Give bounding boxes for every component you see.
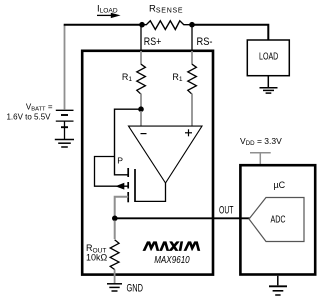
wire RS- pin [191,26,193,51]
wire RS- node to LOAD [192,25,268,40]
gate bar [134,169,136,202]
wire node A to transistor source [115,109,142,175]
wire top rail VBATT to RS+ node [64,24,142,26]
ground microcontroller [269,276,287,295]
svg-text:GND: GND [127,282,144,294]
svg-text:1.6V to 5.5V: 1.6V to 5.5V [6,112,51,121]
op-amp U1 [129,126,203,183]
ADC block [249,198,304,242]
wire RS+ pin [140,26,142,51]
junction node A [138,106,144,112]
load box [247,40,289,76]
drain wire (gray) [115,197,129,217]
IC box MAX9610 [82,51,213,275]
resistor R1 right [188,51,197,126]
resistor R_OUT [110,221,119,284]
wire op-amp output to gate [135,183,166,201]
channel segments [127,168,129,177]
svg-text:10kΩ: 10kΩ [86,252,107,262]
ground GND pin [107,284,122,291]
battery V_BATT [56,110,74,139]
svg-text:ADC: ADC [271,215,286,226]
junction RS+ node [139,22,145,28]
wire node A to inverting input (gray) [140,111,142,126]
current arrow I_LOAD [97,13,121,18]
transistor P (PMOS) [95,157,136,217]
power V_DD rail symbol [250,153,271,164]
svg-text:MAX9610: MAX9610 [154,254,190,266]
junction RS- node [189,22,195,28]
ground load [260,76,278,93]
bulk wire with arrow [95,157,129,187]
svg-text:P: P [117,155,123,165]
wire battery riser (gray) [64,25,66,110]
resistor R1 left [137,51,146,109]
junction OUT node [112,216,118,222]
svg-text:RS-: RS- [197,36,213,48]
wire OUT [115,217,250,219]
svg-text:LOAD: LOAD [259,52,278,63]
ground battery [55,140,74,148]
svg-text:OUT: OUT [219,205,234,217]
resistor R_SENSE [142,21,192,30]
microcontroller box [240,165,315,274]
svg-text:µC: µC [274,180,286,190]
svg-text:RS+: RS+ [144,36,162,48]
